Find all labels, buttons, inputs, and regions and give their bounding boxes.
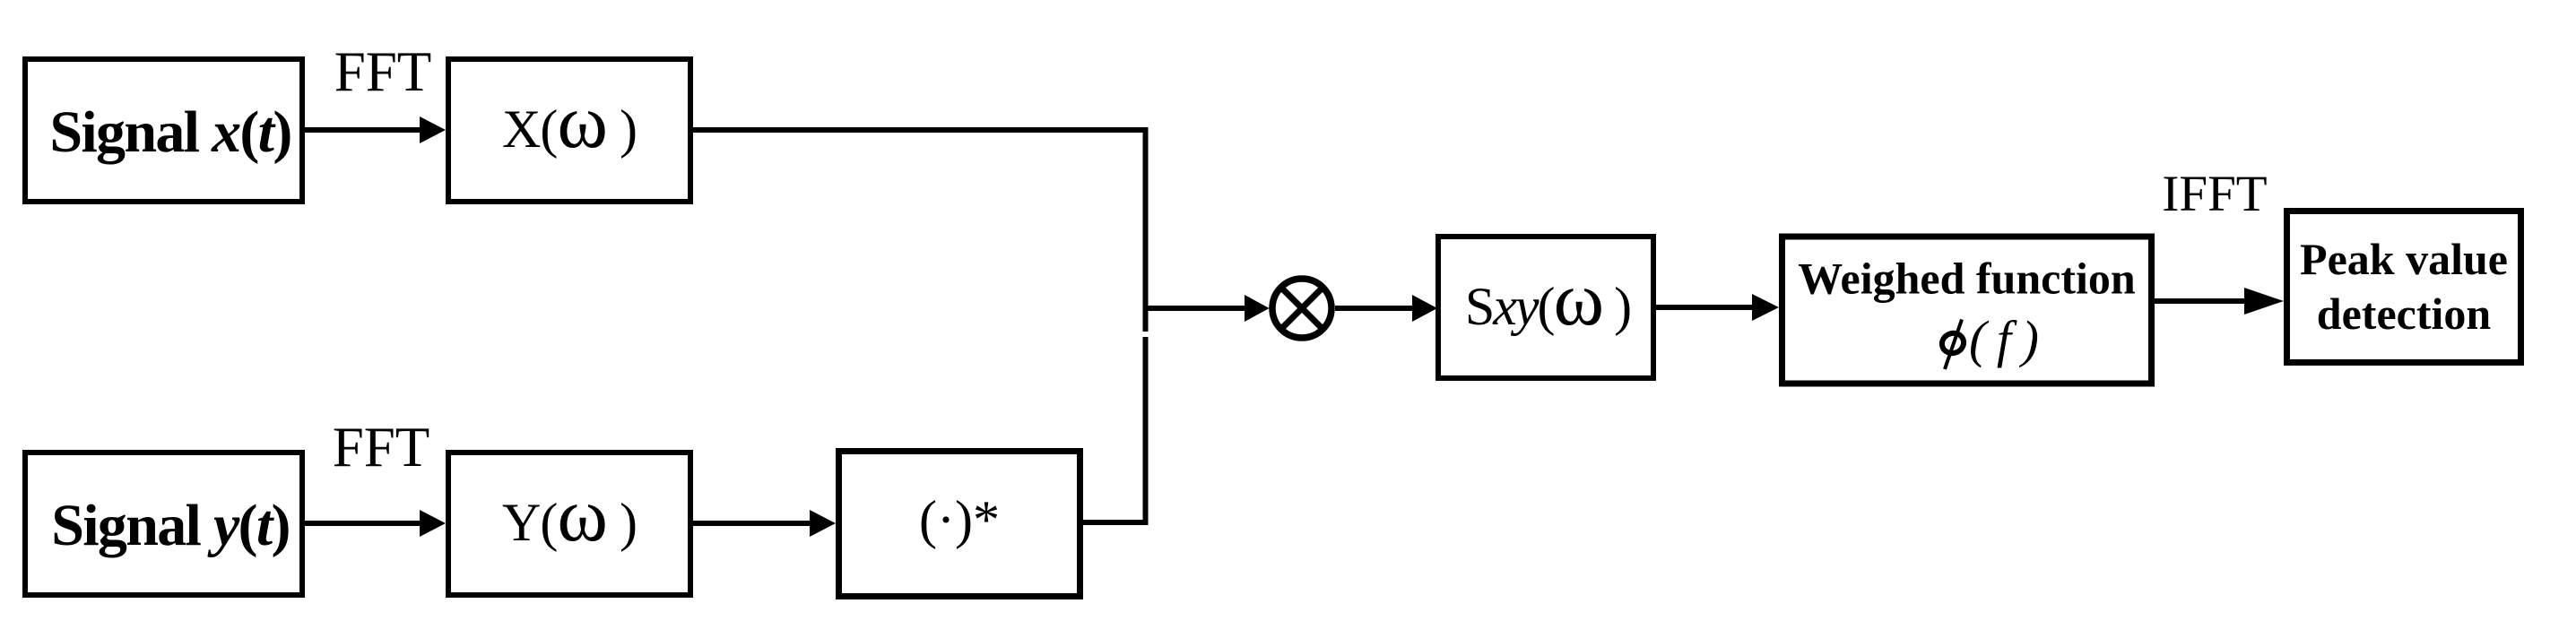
label: IFFT [2162,166,2267,222]
label: FFT (bottom) [333,416,430,478]
block: peak value detection [2287,211,2521,363]
wire: conjugate output horizontal [1083,520,1149,525]
block: Signal y(t) [25,453,302,595]
svg-text:IFFT: IFFT [2162,166,2267,222]
svg-text:FFT: FFT [333,416,430,478]
svg-text:Signal y(t): Signal y(t) [51,493,290,558]
wire: vertical bus lower segment [1143,337,1149,525]
wire: X(w) output horizontal [693,127,1149,133]
svg-text:( f ): ( f ) [1969,310,2039,368]
block: Signal x(t) [25,59,302,202]
svg-text:detection: detection [2317,289,2492,339]
wire: Signal x(t) to X(w) arrow [305,116,446,143]
svg-text:Signal x(t): Signal x(t) [49,99,291,165]
svg-text:FFT: FFT [334,40,432,103]
wire: bus to multiplier arrow [1146,295,1270,322]
block: weighing function phi(f) [1782,237,2152,384]
svg-text:(·)*: (·)* [919,490,1000,549]
wire: Y(w) to conjugate arrow [693,510,836,537]
block: Y(w) [448,453,690,595]
value label: phi symbol of phi(f) [1939,320,1966,370]
svg-text:Weighed function: Weighed function [1798,254,2136,304]
wire: Signal y(t) to Y(w) arrow [305,510,446,537]
wire: multiplier to Sxy arrow [1335,295,1437,322]
wire: Sxy to weighing function arrow [1656,294,1779,321]
block: X(w) [448,59,690,202]
value label: (f) of phi(f) [1969,310,2039,368]
svg-text:Peak value: Peak value [2300,234,2508,284]
block: Sxy(w) [1438,237,1653,378]
multiplier: circled times [1272,279,1331,338]
label: FFT (top) [334,40,432,103]
wire: vertical bus upper segment [1143,127,1149,332]
block: conjugate (.)* [839,452,1080,597]
wire: weighing function to peak detection arrow [2155,288,2284,315]
